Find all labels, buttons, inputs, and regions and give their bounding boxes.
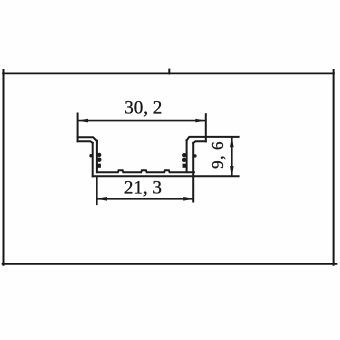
arrowhead 9.6 top bbox=[230, 137, 234, 147]
right serration bead 1 bbox=[182, 153, 186, 157]
dimension line 21.3 bbox=[97, 198, 193, 200]
right inner wall bbox=[186, 140, 188, 172]
arrowhead 9.6 bottom bbox=[230, 166, 234, 176]
flange underside right bbox=[193, 141, 206, 143]
channel outer bottom with 9.6 extension bbox=[93, 175, 239, 177]
flange top left bbox=[78, 137, 97, 140]
right outer tooth bbox=[193, 154, 196, 157]
arrowhead 30.2 right bbox=[195, 119, 205, 123]
arrowhead 21.3 right bbox=[183, 197, 193, 201]
arrowhead 21.3 left bbox=[97, 197, 107, 201]
frame border bottom bbox=[3, 263, 337, 265]
left serration bead 1 bbox=[97, 153, 101, 157]
arrowhead 30.2 left bbox=[78, 119, 88, 123]
extension line right 30.2 bbox=[205, 114, 207, 141]
flange top right with 9.6 extension bbox=[187, 137, 239, 140]
extension line left 30.2 bbox=[77, 114, 79, 142]
dimension line 30.2 bbox=[78, 120, 205, 122]
channel inner bottom with ribs bbox=[97, 170, 193, 172]
left outer wall bbox=[92, 143, 94, 176]
right serration foot bbox=[183, 164, 188, 168]
frame border top bbox=[3, 72, 334, 74]
svg-text:21, 3: 21, 3 bbox=[124, 177, 162, 198]
right outer wall and 21.3 extension bbox=[192, 143, 194, 202]
dimension line 9.6 bbox=[231, 138, 233, 176]
right serration bead 2 bbox=[182, 158, 186, 162]
svg-text:30, 2: 30, 2 bbox=[124, 98, 162, 119]
left outer tooth bbox=[89, 154, 92, 157]
frame border left bbox=[3, 70, 5, 265]
left serration foot bbox=[96, 164, 101, 168]
frame border right bbox=[333, 70, 335, 265]
extension line left 21.3 bbox=[96, 178, 98, 204]
flange underside left bbox=[78, 141, 93, 143]
frame top tick bbox=[168, 70, 170, 74]
left inner wall bbox=[96, 141, 98, 173]
svg-text:9, 6: 9, 6 bbox=[208, 141, 227, 169]
left serration bead 2 bbox=[97, 158, 101, 162]
